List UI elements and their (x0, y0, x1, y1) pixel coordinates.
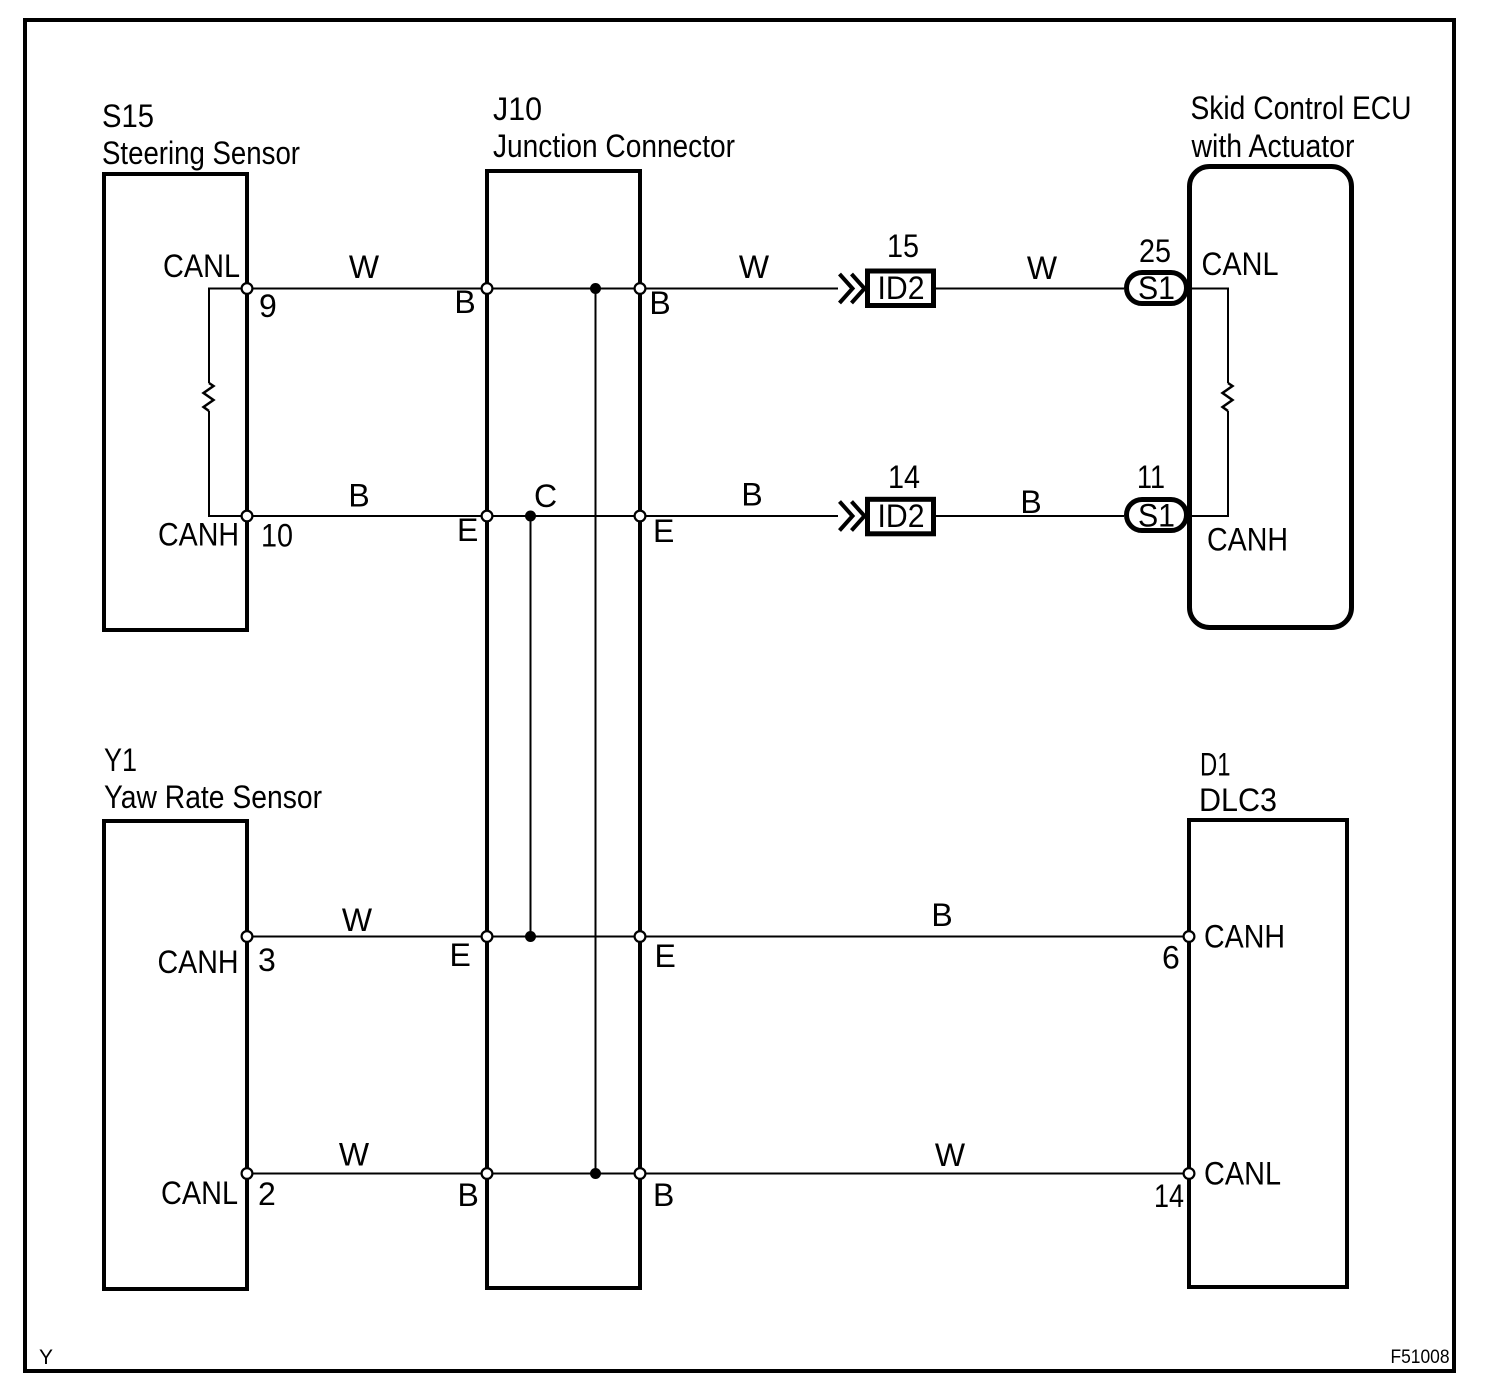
svg-text:with Actuator: with Actuator (1191, 128, 1355, 164)
svg-text:W: W (1027, 250, 1058, 286)
junction dot top CANL (590, 283, 601, 294)
svg-text:CANH: CANH (1207, 522, 1288, 558)
svg-text:E: E (450, 937, 471, 973)
svg-text:15: 15 (887, 228, 919, 264)
svg-text:B: B (458, 1177, 479, 1213)
svg-text:DLC3: DLC3 (1199, 782, 1277, 818)
internal J10 wire joining CANL wires (595, 289, 597, 1174)
internal wire of S15 terminating circuit (209, 289, 247, 517)
svg-text:9: 9 (259, 288, 277, 324)
junction dot bottom CANH (525, 931, 536, 942)
connector S1 pin 25 (1127, 270, 1187, 306)
pin DLC3-6 (1184, 931, 1195, 942)
svg-text:CANL: CANL (163, 248, 240, 284)
connector ID2 bottom (868, 498, 934, 534)
connector S15 Steering Sensor box (104, 174, 247, 630)
svg-text:W: W (739, 249, 770, 285)
label J10 (493, 91, 735, 164)
connector S1 pin 11 (1127, 498, 1187, 534)
label Y1 (104, 742, 322, 815)
internal J10 wire joining CANH wires (530, 516, 532, 937)
svg-text:Junction Connector: Junction Connector (493, 128, 735, 164)
svg-text:Y: Y (39, 1346, 53, 1369)
connector ID2 top (868, 270, 934, 306)
svg-text:CANH: CANH (158, 517, 239, 553)
connector J10 Junction Connector box (487, 171, 640, 1288)
svg-text:Yaw Rate Sensor: Yaw Rate Sensor (104, 779, 322, 815)
pin J10 E right (635, 511, 646, 522)
wire B from S15 pin 10 to J10 (247, 515, 838, 517)
svg-text:J10: J10 (493, 91, 542, 127)
svg-text:3: 3 (258, 942, 276, 978)
svg-text:E: E (457, 512, 478, 548)
svg-text:10: 10 (261, 518, 293, 554)
pin J10 B right bottom (635, 1168, 646, 1179)
splice arrows into ID2 bottom (840, 502, 865, 531)
resistor in ECU (1223, 383, 1233, 411)
svg-text:14: 14 (888, 459, 920, 495)
svg-text:B: B (653, 1177, 674, 1213)
pin J10 B left bottom (482, 1168, 493, 1179)
pin Y1-3 (242, 931, 253, 942)
svg-text:W: W (342, 902, 373, 938)
wire W from Y1 pin 2 to DLC3 pin 14 (247, 1173, 1189, 1175)
wire W from S15 pin 9 to J10 (247, 288, 838, 290)
junction dot top CANH (525, 511, 536, 522)
splice arrows into ID2 top (840, 274, 865, 303)
pin J10 B right top (635, 283, 646, 294)
svg-text:C: C (534, 478, 557, 514)
svg-text:Steering Sensor: Steering Sensor (102, 135, 300, 171)
wire W from ID2 to ECU S1 pin 25 (936, 288, 1124, 290)
svg-text:14: 14 (1154, 1178, 1184, 1214)
svg-text:11: 11 (1137, 459, 1165, 495)
svg-text:ID2: ID2 (878, 270, 925, 306)
junction dot bottom CANL (590, 1168, 601, 1179)
svg-text:B: B (649, 285, 670, 321)
svg-text:CANL: CANL (1204, 1156, 1281, 1192)
svg-text:B: B (348, 478, 369, 514)
svg-text:F51008: F51008 (1391, 1347, 1450, 1368)
svg-text:ID2: ID2 (878, 498, 925, 534)
label S15 (102, 98, 300, 171)
pin S15-10 (242, 511, 253, 522)
svg-text:W: W (349, 249, 380, 285)
internal wire of ECU terminating circuit (1189, 289, 1228, 517)
connector D1 DLC3 box (1189, 820, 1347, 1287)
pin J10 B left top (482, 283, 493, 294)
pin J10 E left (482, 511, 493, 522)
resistor in S15 (204, 383, 214, 411)
label D1 (1199, 747, 1277, 819)
svg-text:S1: S1 (1138, 498, 1175, 534)
svg-text:6: 6 (1162, 940, 1180, 976)
svg-text:CANH: CANH (1204, 919, 1285, 955)
svg-text:Y1: Y1 (104, 742, 137, 778)
connector Skid Control ECU box (1190, 167, 1352, 628)
svg-text:CANL: CANL (1202, 246, 1279, 282)
svg-text:S1: S1 (1138, 270, 1175, 306)
svg-text:E: E (653, 513, 674, 549)
svg-text:W: W (935, 1137, 966, 1173)
svg-text:E: E (655, 938, 676, 974)
pin Y1-2 (242, 1168, 253, 1179)
wire B from ID2 to ECU S1 pin 11 (936, 515, 1124, 517)
svg-text:D1: D1 (1200, 747, 1231, 783)
svg-text:25: 25 (1139, 233, 1171, 269)
svg-text:B: B (1020, 484, 1041, 520)
svg-text:B: B (931, 897, 952, 933)
svg-text:S15: S15 (102, 98, 154, 134)
pin DLC3-14 (1184, 1168, 1195, 1179)
svg-text:B: B (741, 477, 762, 513)
svg-text:Skid Control ECU: Skid Control ECU (1191, 90, 1412, 126)
svg-text:CANL: CANL (161, 1175, 238, 1211)
pin S15-9 (242, 283, 253, 294)
connector Y1 Yaw Rate Sensor box (104, 821, 247, 1289)
pin J10 E left bottom (482, 931, 493, 942)
wire W/B from Y1 pin 3 to DLC3 pin 6 (247, 936, 1189, 938)
pin J10 E right bottom (635, 931, 646, 942)
svg-text:B: B (454, 284, 475, 320)
svg-text:CANH: CANH (158, 944, 239, 980)
svg-text:2: 2 (258, 1176, 276, 1212)
label Skid Control ECU (1191, 90, 1412, 164)
svg-text:W: W (339, 1137, 370, 1173)
